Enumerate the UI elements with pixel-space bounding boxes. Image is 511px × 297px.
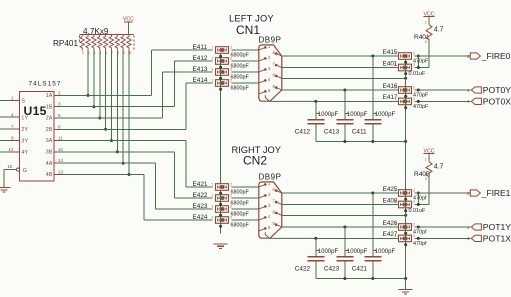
capacitor E423 6800pF EMI filter [193, 203, 259, 218]
svg-text:RP401: RP401 [53, 39, 78, 48]
svg-text:C412: C412 [295, 129, 311, 136]
wire R401 to +5V node [415, 41, 429, 69]
svg-text:4.7: 4.7 [434, 27, 444, 34]
svg-text:6800pF: 6800pF [231, 75, 250, 81]
svg-text:2: 2 [230, 215, 232, 219]
svg-text:2: 2 [413, 63, 415, 67]
capacitor E415 470pF EMI filter [383, 49, 429, 65]
node output POT0X [415, 97, 511, 107]
svg-text:2B: 2B [46, 127, 53, 133]
svg-text:1: 1 [211, 56, 213, 60]
svg-text:1: 1 [394, 222, 396, 226]
svg-text:6800pF: 6800pF [231, 86, 250, 92]
svg-text:470pF: 470pF [413, 104, 429, 110]
svg-text:E422: E422 [193, 192, 208, 199]
svg-text:2: 2 [413, 234, 415, 238]
svg-text:2: 2 [230, 204, 232, 208]
svg-text:2A: 2A [46, 116, 53, 122]
svg-text:4B: 4B [46, 172, 53, 178]
svg-text:2: 2 [58, 90, 61, 95]
svg-text:2: 2 [413, 222, 415, 226]
svg-text:1000pF: 1000pF [375, 112, 396, 118]
svg-text:12: 12 [8, 147, 14, 152]
node LEFT JOY heading [229, 13, 274, 37]
capacitor E422 6800pF EMI filter [193, 192, 259, 207]
svg-text:G: G [23, 168, 27, 174]
svg-text:10: 10 [58, 147, 64, 152]
svg-text:C422: C422 [295, 266, 311, 273]
svg-text:C421: C421 [352, 266, 368, 273]
U15 left pin wires with pin numbers [0, 96, 20, 152]
wire CN1 pin 9 pot line [282, 89, 399, 91]
svg-text:1: 1 [211, 78, 213, 82]
VCC supply symbol above RP401 [123, 17, 134, 35]
svg-text:6: 6 [58, 124, 61, 129]
VCC supply symbol above R40B [424, 148, 435, 154]
svg-text:3A: 3A [46, 138, 53, 144]
wire bottom rail joining C422,C423,C421 [316, 277, 407, 280]
capacitor C421 1000pF [352, 192, 396, 279]
capacitor E416 470pF EMI filter [383, 83, 429, 99]
svg-text:470pF: 470pF [413, 58, 429, 64]
svg-text:1: 1 [211, 204, 213, 208]
svg-text:2: 2 [230, 193, 232, 197]
wire ground rail right of CN2 filters [404, 196, 407, 278]
svg-text:2: 2 [230, 182, 232, 186]
op-amp U15 74LS157 multiplexer [16, 81, 61, 181]
capacitor E417 470pF EMI filter [383, 94, 429, 110]
svg-text:E423: E423 [193, 203, 208, 210]
capacitor E412 6800pF EMI filter [193, 55, 259, 70]
svg-text:CN1: CN1 [236, 23, 260, 37]
wire R40B to +5V node [415, 178, 429, 206]
svg-text:1: 1 [211, 182, 213, 186]
svg-text:6800pF: 6800pF [231, 201, 250, 207]
svg-text:C413: C413 [324, 129, 340, 136]
svg-text:10: 10 [128, 51, 132, 55]
svg-text:1: 1 [394, 234, 396, 238]
svg-text:_FIRE1: _FIRE1 [481, 188, 511, 198]
wire CN1 pin 6 fire line [282, 55, 399, 57]
svg-text:DB9P: DB9P [259, 35, 282, 44]
capacitor C411 1000pF [352, 55, 396, 142]
svg-text:6800pF: 6800pF [231, 64, 250, 70]
svg-text:1: 1 [425, 157, 427, 161]
capacitor E408 0.01uF EMI filter [383, 197, 426, 214]
svg-text:POT1Y: POT1Y [483, 222, 511, 232]
svg-text:470pf: 470pf [413, 241, 427, 247]
svg-text:C423: C423 [324, 266, 340, 273]
svg-text:4.7: 4.7 [434, 164, 444, 171]
wire CN1 pin 8 ground line [282, 77, 407, 80]
svg-text:1: 1 [211, 67, 213, 71]
wire ground rail right of CN1 filters [404, 59, 407, 141]
svg-text:LEFT JOY: LEFT JOY [229, 13, 274, 23]
svg-text:3B: 3B [46, 150, 53, 156]
capacitor E425 470pf EMI filter [383, 186, 427, 202]
VCC supply symbol above R401 [424, 11, 435, 17]
capacitor C422 1000pF [295, 237, 339, 279]
svg-text:1: 1 [211, 45, 213, 49]
capacitor E421 6800pF EMI filter [193, 181, 259, 196]
svg-text:1000pF: 1000pF [318, 112, 339, 118]
svg-text:2: 2 [413, 188, 415, 192]
svg-text:1000pF: 1000pF [347, 249, 368, 255]
wire CN2 pin 8 ground line [282, 214, 407, 217]
svg-text:15: 15 [7, 164, 13, 169]
svg-text:11: 11 [58, 136, 63, 141]
svg-text:POT1X: POT1X [483, 234, 511, 244]
svg-text:4Y: 4Y [21, 150, 28, 156]
svg-text:POT0Y: POT0Y [483, 85, 511, 95]
svg-text:E411: E411 [193, 44, 208, 51]
resistor R40B 4.7 [414, 154, 444, 181]
svg-text:DB9P: DB9P [259, 172, 282, 181]
svg-text:1: 1 [394, 200, 396, 204]
svg-text:2: 2 [413, 51, 415, 55]
node output POT1X [415, 234, 511, 244]
svg-text:2: 2 [425, 40, 427, 44]
capacitor E414 6800pF EMI filter [193, 77, 259, 92]
svg-text:1000pF: 1000pF [375, 249, 396, 255]
svg-text:E421: E421 [193, 181, 208, 188]
wire CN1 pin 5 down to pot line [265, 95, 398, 101]
ground symbol below U15 [0, 188, 10, 192]
svg-text:14: 14 [58, 158, 64, 163]
svg-text:1: 1 [394, 97, 396, 101]
connector CN2 DB9P [259, 172, 282, 238]
svg-text:6800pF: 6800pF [231, 223, 250, 229]
svg-text:2: 2 [230, 78, 232, 82]
svg-text:POT0X: POT0X [483, 97, 511, 107]
wire CN2 pin 5 down to pot line [265, 232, 398, 238]
svg-text:E414: E414 [193, 77, 208, 84]
svg-text:13: 13 [58, 170, 64, 175]
svg-text:1B: 1B [46, 104, 53, 110]
svg-text:9: 9 [11, 136, 14, 141]
svg-text:2: 2 [413, 200, 415, 204]
svg-text:2: 2 [230, 67, 232, 71]
svg-text:E412: E412 [193, 55, 208, 62]
capacitor C423 1000pF [324, 226, 368, 279]
svg-text:1: 1 [394, 85, 396, 89]
svg-text:R401: R401 [414, 34, 430, 41]
svg-text:6800pF: 6800pF [231, 190, 250, 196]
svg-text:2: 2 [230, 45, 232, 49]
pull-up wires from RP401 to U15 input rows [87, 51, 131, 177]
node output POT0Y [415, 85, 511, 95]
svg-text:0.01uF: 0.01uF [409, 71, 426, 77]
svg-text:1Y: 1Y [21, 115, 28, 121]
wire ground rail of E411-E414 [219, 53, 222, 183]
capacitor E427 470pf EMI filter [383, 231, 427, 247]
capacitor E426 470pf EMI filter [383, 220, 427, 236]
wire right ground rail between sections [405, 142, 407, 197]
wire CN1 pin 7 +5V line [282, 67, 399, 69]
node RIGHT JOY heading [232, 145, 281, 168]
svg-text:1: 1 [425, 20, 427, 24]
wire CN2 pin 7 +5V line [282, 204, 399, 206]
svg-text:4A: 4A [46, 161, 53, 167]
svg-text:C411: C411 [352, 129, 367, 136]
svg-text:2: 2 [413, 97, 415, 101]
svg-text:2: 2 [82, 51, 84, 55]
ground symbol bottom right [399, 279, 413, 295]
svg-text:1000pF: 1000pF [318, 249, 339, 255]
svg-text:4: 4 [11, 112, 14, 117]
svg-text:2: 2 [425, 177, 427, 181]
svg-text:7: 7 [11, 124, 14, 129]
svg-text:1: 1 [211, 215, 213, 219]
svg-text:470pf: 470pf [413, 229, 427, 235]
capacitor E401 0.01uF EMI filter [383, 60, 426, 77]
resistor pack RP401 4.7Kx9 [53, 27, 134, 55]
svg-text:CN2: CN2 [243, 153, 267, 167]
capacitor C412 1000pF [295, 100, 339, 142]
capacitor E424 6800pF EMI filter [193, 214, 259, 229]
svg-text:6800pF: 6800pF [231, 53, 250, 59]
svg-text:2: 2 [230, 56, 232, 60]
wire CN2 pin 6 fire line [282, 192, 399, 194]
wires U15 outputs 1A-4B to connector filters [54, 50, 213, 220]
capacitor E413 6800pF EMI filter [193, 66, 259, 81]
svg-text:470pf: 470pf [413, 195, 427, 201]
wire bottom rail joining C412,C413,C411 [316, 140, 407, 143]
svg-text:1: 1 [11, 96, 14, 101]
svg-text:3: 3 [58, 102, 61, 107]
svg-text:E413: E413 [193, 66, 208, 73]
svg-text:1: 1 [394, 63, 396, 67]
svg-text:3Y: 3Y [21, 139, 28, 145]
resistor R401 4.7 [414, 17, 444, 44]
svg-text:1A: 1A [46, 93, 53, 99]
svg-text:1000pF: 1000pF [347, 112, 368, 118]
svg-text:74LS157: 74LS157 [29, 81, 62, 88]
node output _FIRE1 [415, 188, 511, 198]
node output _FIRE0 [415, 51, 511, 61]
svg-text:1: 1 [394, 188, 396, 192]
svg-text:470pF: 470pF [413, 92, 429, 98]
svg-text:1: 1 [211, 193, 213, 197]
svg-text:1: 1 [394, 51, 396, 55]
capacitor E411 6800pF EMI filter [193, 44, 259, 59]
ground symbol below E424 [214, 244, 228, 249]
svg-text:0.01uF: 0.01uF [409, 208, 426, 214]
svg-text:6800pF: 6800pF [231, 212, 250, 218]
node output POT1Y [415, 222, 511, 232]
svg-text:2: 2 [413, 85, 415, 89]
U15 G pin wire (pin 15) [4, 164, 16, 187]
wire ground rail of E421-E424 [219, 190, 222, 233]
svg-text:2Y: 2Y [21, 127, 28, 133]
svg-text:5: 5 [58, 113, 61, 118]
connector CN1 DB9P [259, 35, 282, 101]
svg-text:R40B: R40B [414, 171, 430, 178]
svg-text:S: S [21, 99, 25, 105]
svg-text:E424: E424 [193, 214, 208, 221]
wire CN2 pin 9 pot line [282, 226, 399, 228]
svg-text:_FIRE0: _FIRE0 [481, 51, 511, 61]
capacitor C413 1000pF [324, 89, 368, 142]
